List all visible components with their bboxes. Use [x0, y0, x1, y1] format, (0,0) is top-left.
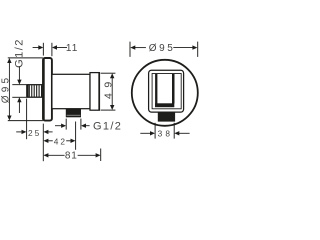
label G1/2 bottom outlet (with arrows) [55, 119, 122, 133]
dimension Ø95 (front view, top) [130, 42, 198, 57]
dimension 42 (wall to outlet axis) [43, 122, 75, 150]
label G1/2 wall connection (rotated, with arrows) [12, 38, 26, 113]
dimension 25 (stub length) [16, 99, 52, 162]
svg-text:G1/2: G1/2 [13, 38, 25, 68]
svg-text:G1/2: G1/2 [93, 120, 122, 132]
dimension 81 (total projection) [43, 149, 100, 162]
bottom connector (front view, dark) [158, 112, 175, 121]
dimension 49 (end cap height) [101, 73, 116, 110]
dimension 11 (plate depth) [33, 43, 79, 56]
end cap band (front view) [155, 103, 174, 107]
escutcheon circle Ø95 (front view) [132, 60, 198, 126]
elbow body (side view) [52, 74, 90, 108]
hose-connector end cap (side view) [90, 73, 99, 111]
outer rounded square housing (front view) [149, 70, 184, 112]
dimension 38 (outlet width, front view) [140, 123, 189, 139]
svg-text:81: 81 [65, 151, 78, 162]
dimension Ø95 (plate diameter, left view) [1, 58, 43, 121]
central column left bar [155, 74, 157, 104]
inner recess rect (front view) [152, 74, 181, 109]
svg-text:25: 25 [28, 128, 41, 138]
bottom outlet connector (side view, dark) [66, 109, 81, 118]
svg-text:Ø95: Ø95 [149, 43, 176, 54]
svg-text:Ø95: Ø95 [1, 75, 12, 104]
svg-text:49: 49 [102, 76, 114, 99]
svg-text:11: 11 [66, 43, 78, 54]
svg-text:42: 42 [54, 136, 67, 146]
wall connection stub G1/2 (hatched thread) [27, 85, 43, 98]
escutcheon plate (side view) [43, 58, 52, 121]
central column right bar [172, 74, 175, 104]
svg-text:38: 38 [158, 128, 174, 138]
